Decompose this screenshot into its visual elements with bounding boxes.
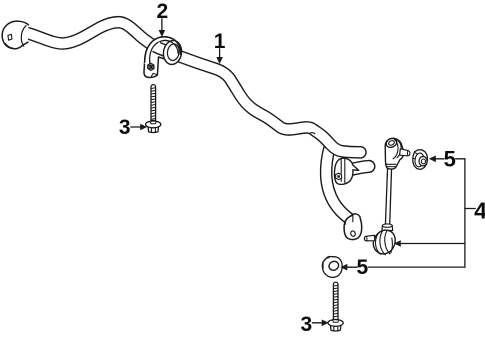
leader line and arrowhead for label 3 (bottom) (312, 320, 328, 327)
bushing bracket clamp (part 2) body behind bar (144, 37, 181, 78)
clamp bolt head (336, 173, 342, 180)
leader line and arrowhead for label 2 (159, 19, 166, 37)
stabilizer link rod (part 4) (385, 167, 391, 225)
bushing ring in front of bar (part 2) (162, 39, 183, 65)
leader line and arrowhead for label 3 (left) (131, 124, 147, 131)
stabilizer bar left end eyelet (2, 21, 28, 49)
leader line and arrowhead for label 1 (216, 49, 223, 64)
leader line and arrowhead for label 5 (bottom) (340, 264, 465, 271)
svg-text:5: 5 (444, 146, 456, 171)
bolt (part 3, left) shaft (151, 85, 156, 121)
second bushing bracket clamp (on end curl) (334, 158, 358, 184)
bottom ball joint stud (364, 235, 374, 241)
bolt (part 3, bottom) shaft (333, 282, 338, 319)
hole in left eyelet (8, 34, 12, 40)
clamp arch band over ring (160, 37, 181, 55)
leader line and arrowhead for label 4 (points at link) (394, 240, 465, 247)
svg-text:2: 2 (156, 0, 168, 23)
cusp flick at bar bend (310, 133, 315, 134)
leader line and arrowhead for label 5 (top) (429, 156, 465, 163)
svg-text:3: 3 (301, 313, 313, 336)
clamp flange bolt head (part 2) (148, 63, 157, 77)
flange nut (part 5, top) (413, 150, 428, 170)
svg-text:4: 4 (474, 198, 485, 224)
stabilizer bar return tip (to apex cap) (351, 166, 369, 169)
hole in right eyelet (350, 230, 356, 237)
clamp left band over bar (145, 39, 161, 64)
bracket line for label 4 (465, 159, 475, 267)
flange nut (part 5, bottom) (322, 257, 342, 278)
stabilizer link top ball joint housing (385, 137, 410, 169)
stabilizer link bottom ball joint housing (364, 224, 395, 255)
svg-text:5: 5 (357, 256, 369, 279)
top ball joint stud (400, 149, 410, 156)
bolt (part 3, left) flange head (146, 121, 161, 132)
svg-text:1: 1 (214, 30, 226, 53)
svg-text:3: 3 (119, 116, 131, 139)
bolt (part 3, bottom) flange head (328, 320, 343, 331)
stabilizer bar right end eyelet tab (344, 214, 362, 240)
stabilizer bar end curl (loop down to right eyelet) (326, 146, 349, 219)
stabilizer bar main segment (part 1) (27, 22, 361, 152)
